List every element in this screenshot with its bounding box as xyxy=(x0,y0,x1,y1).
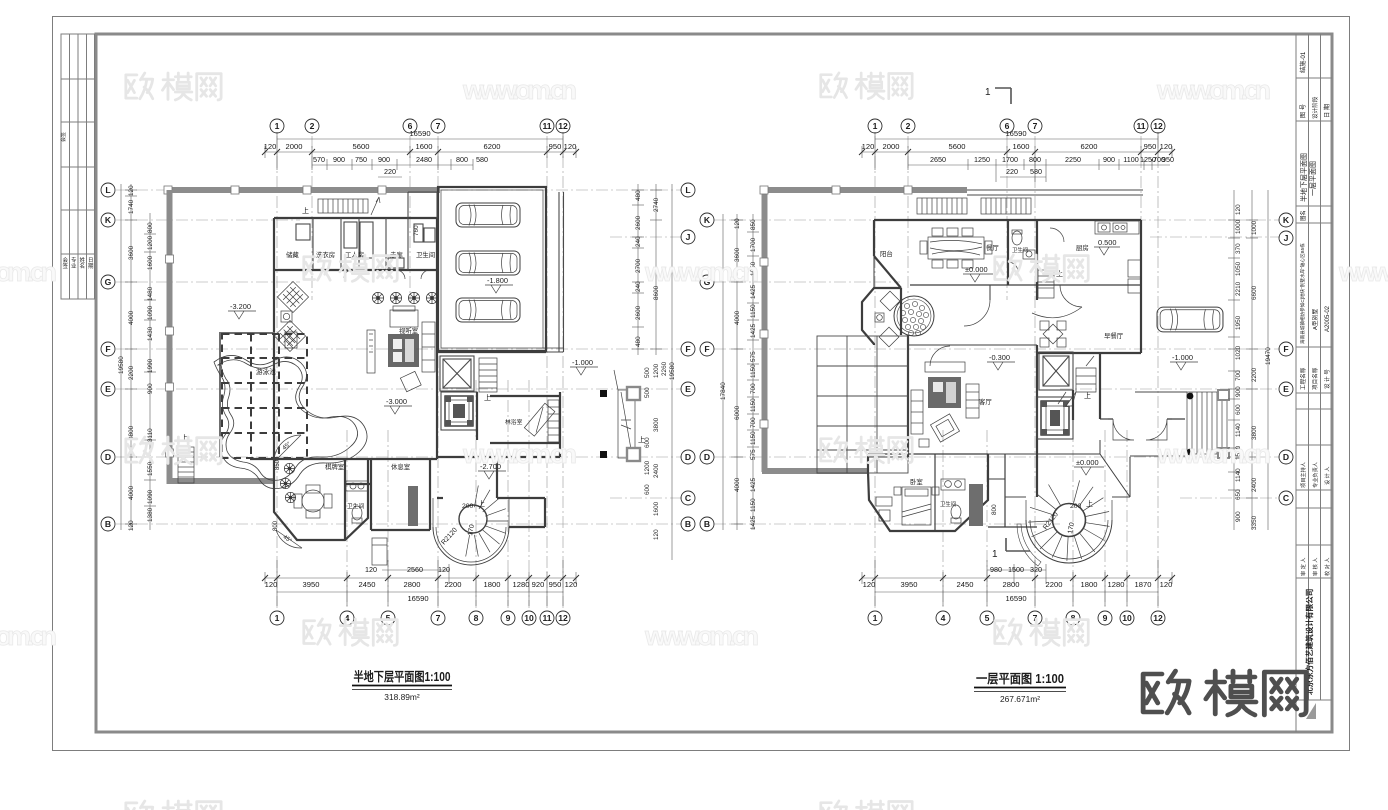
svg-text:700: 700 xyxy=(750,383,757,394)
svg-text:审 核 人: 审 核 人 xyxy=(1311,558,1319,576)
svg-text:16590: 16590 xyxy=(1005,594,1026,603)
svg-text:会: 会 xyxy=(63,256,69,264)
svg-text:12: 12 xyxy=(558,613,568,623)
svg-text:半地下层平面图: 半地下层平面图 xyxy=(1299,153,1308,202)
svg-text:审 定 人: 审 定 人 xyxy=(1299,558,1307,576)
svg-text:日 期: 日 期 xyxy=(1323,104,1331,118)
bottom bubbles xyxy=(868,611,1165,625)
svg-text:900: 900 xyxy=(147,383,154,394)
svg-text:4000: 4000 xyxy=(128,485,135,500)
svg-text:120: 120 xyxy=(128,520,135,531)
svg-text:姓: 姓 xyxy=(80,256,86,264)
svg-text:900: 900 xyxy=(1235,511,1242,522)
svg-text:200: 200 xyxy=(462,503,474,510)
spiral stair left plan xyxy=(433,486,509,566)
svg-text:10: 10 xyxy=(524,613,534,623)
svg-text:12: 12 xyxy=(1153,613,1163,623)
terrace deck edge walls xyxy=(219,333,275,457)
svg-text:1000: 1000 xyxy=(1251,220,1258,235)
svg-text:6: 6 xyxy=(408,121,413,131)
ornate water tank square xyxy=(441,392,477,430)
main body walls xyxy=(868,220,1141,531)
svg-text:1425: 1425 xyxy=(750,515,757,530)
entry doors xyxy=(1108,419,1172,440)
svg-text:1425: 1425 xyxy=(750,477,757,492)
svg-text:G: G xyxy=(704,277,711,287)
left dim columns xyxy=(121,184,156,530)
svg-text:J: J xyxy=(1284,233,1289,243)
level -2.700 xyxy=(478,462,506,479)
svg-text:1700: 1700 xyxy=(750,237,757,252)
svg-text:120: 120 xyxy=(653,529,660,540)
svg-text:F: F xyxy=(685,344,690,354)
placeholders xyxy=(116,136,682,608)
svg-text:600: 600 xyxy=(1235,404,1242,415)
row1 y88 phase A xyxy=(126,73,221,100)
porch coffer xyxy=(1037,397,1073,439)
svg-text:3800: 3800 xyxy=(1251,425,1258,440)
axes horizontal xyxy=(714,220,1280,524)
svg-text:L: L xyxy=(685,185,690,195)
octagonal bay west (round planter) xyxy=(862,288,901,345)
row5 y816 phase A (cut) xyxy=(126,801,221,810)
svg-text:图名: 图名 xyxy=(1299,210,1307,221)
top wall right part (porch) xyxy=(967,190,1143,195)
level -3.000 xyxy=(384,397,412,414)
svg-text:800: 800 xyxy=(991,504,998,515)
top dim lines xyxy=(265,132,576,177)
svg-text:F: F xyxy=(105,344,110,354)
svg-text:F: F xyxy=(704,344,709,354)
svg-text:2200: 2200 xyxy=(128,365,135,380)
svg-text:500: 500 xyxy=(644,367,651,378)
svg-text:3800: 3800 xyxy=(128,425,135,440)
svg-text:洗衣房: 洗衣房 xyxy=(316,250,335,259)
svg-text:2600: 2600 xyxy=(635,305,642,320)
svg-text:12: 12 xyxy=(1153,121,1163,131)
stair bottom-left xyxy=(178,447,194,483)
kitchen xyxy=(1050,221,1141,293)
axes vertical xyxy=(875,136,1158,608)
svg-text:6000: 6000 xyxy=(734,405,741,420)
breakfast table xyxy=(1040,321,1066,347)
svg-text:上: 上 xyxy=(1086,499,1093,508)
perimeter pergola walls xyxy=(762,187,967,193)
svg-text:4000: 4000 xyxy=(128,310,135,325)
top rooms block xyxy=(274,218,438,459)
svg-text:F: F xyxy=(1283,344,1288,354)
svg-text:240: 240 xyxy=(635,281,642,292)
canopy right double line xyxy=(546,192,564,352)
svg-text:6: 6 xyxy=(1005,121,1010,131)
top entry stairs xyxy=(917,198,1031,214)
svg-text:工程名称: 工程名称 xyxy=(1299,367,1307,390)
svg-text:日: 日 xyxy=(88,257,94,264)
svg-text:B: B xyxy=(105,519,111,529)
svg-text:1020: 1020 xyxy=(1235,345,1242,360)
top stairs xyxy=(318,197,380,215)
svg-text:储藏: 储藏 xyxy=(286,250,299,259)
svg-text:A2005-02: A2005-02 xyxy=(1325,305,1331,332)
svg-text:设计阶段: 设计阶段 xyxy=(1311,96,1319,119)
big logo xyxy=(1143,671,1306,715)
elevator xyxy=(440,356,474,391)
west retaining wall xyxy=(167,190,173,484)
stair beside elevator xyxy=(1058,356,1096,406)
svg-text:名: 名 xyxy=(80,262,86,270)
svg-text:阳台: 阳台 xyxy=(880,249,893,258)
svg-text:1090: 1090 xyxy=(147,305,154,320)
svg-text:校 对 人: 校 对 人 xyxy=(1323,558,1331,576)
svg-text:2600: 2600 xyxy=(635,215,642,230)
svg-text:业: 业 xyxy=(71,262,77,270)
svg-text:19580: 19580 xyxy=(118,356,125,374)
svg-text:会签: 会签 xyxy=(60,132,67,142)
svg-text:卫生间: 卫生间 xyxy=(1012,246,1028,254)
svg-text:E: E xyxy=(685,384,691,394)
svg-text:6600: 6600 xyxy=(1251,285,1258,300)
left bubbles right plan xyxy=(700,213,714,531)
svg-text:走廊: 走廊 xyxy=(390,250,403,259)
svg-text:5: 5 xyxy=(386,613,391,623)
svg-text:B: B xyxy=(685,519,691,529)
garage door opening ticks xyxy=(543,205,563,348)
svg-text:19470: 19470 xyxy=(1265,347,1272,365)
svg-text:2740: 2740 xyxy=(653,197,660,212)
svg-text:1990: 1990 xyxy=(147,358,154,373)
svg-text:1: 1 xyxy=(985,87,991,98)
svg-text:7: 7 xyxy=(436,121,441,131)
bottom dims xyxy=(265,560,576,606)
svg-text:一层平面图: 一层平面图 xyxy=(1309,161,1317,196)
svg-text:2200: 2200 xyxy=(1251,367,1258,382)
svg-text:17840: 17840 xyxy=(720,382,727,400)
svg-text:200: 200 xyxy=(1070,503,1082,510)
svg-text:10: 10 xyxy=(1122,613,1132,623)
svg-text:±0.000: ±0.000 xyxy=(1076,458,1099,467)
flowers row xyxy=(372,292,383,303)
svg-text:5: 5 xyxy=(985,613,990,623)
svg-text:上: 上 xyxy=(1056,269,1063,278)
svg-text:650: 650 xyxy=(1235,489,1242,500)
svg-text:1480: 1480 xyxy=(147,286,154,301)
svg-text:900: 900 xyxy=(1235,386,1242,397)
axes vertical xyxy=(277,136,563,608)
door arcs top rooms xyxy=(320,270,430,279)
svg-text:2400: 2400 xyxy=(653,463,660,478)
svg-text:8: 8 xyxy=(474,613,479,623)
svg-text:3800: 3800 xyxy=(653,417,660,432)
svg-text:C: C xyxy=(685,493,691,503)
svg-text:1150: 1150 xyxy=(750,304,757,318)
bottom bubbles xyxy=(270,611,570,625)
svg-text:7: 7 xyxy=(1033,121,1038,131)
svg-text:卫生间: 卫生间 xyxy=(347,502,365,510)
svg-text:1140: 1140 xyxy=(1235,468,1242,482)
svg-text:800: 800 xyxy=(273,520,279,531)
svg-text:G: G xyxy=(105,277,112,287)
svg-text:575: 575 xyxy=(750,351,757,362)
svg-text:1: 1 xyxy=(275,613,280,623)
svg-text:800: 800 xyxy=(147,222,154,233)
left dim columns right plan xyxy=(723,214,759,530)
svg-text:L: L xyxy=(105,185,110,195)
svg-text:318.89m²: 318.89m² xyxy=(384,692,420,702)
level -3.200 xyxy=(228,302,256,319)
svg-text:850: 850 xyxy=(750,219,757,230)
svg-text:267.671m²: 267.671m² xyxy=(1000,694,1040,704)
dining table xyxy=(920,228,992,268)
svg-text:19580: 19580 xyxy=(669,362,676,380)
top bubbles xyxy=(868,119,1165,133)
svg-text:上: 上 xyxy=(478,499,485,508)
svg-text:8600: 8600 xyxy=(653,285,660,300)
pool dashed grid xyxy=(222,334,307,458)
svg-text:11: 11 xyxy=(542,613,551,623)
stair next to elevator xyxy=(479,358,497,392)
right bubbles of left plan xyxy=(681,183,695,531)
svg-text:2700: 2700 xyxy=(635,258,642,273)
svg-text:1380: 1380 xyxy=(147,507,154,522)
corridor wall right of rooms / entry xyxy=(408,192,437,218)
svg-text:±0.000: ±0.000 xyxy=(965,265,988,274)
room labels xyxy=(880,243,1124,508)
svg-text:4000: 4000 xyxy=(734,310,741,325)
right dim columns of left plan xyxy=(632,184,672,560)
svg-text:3600: 3600 xyxy=(128,245,135,260)
top dim lines xyxy=(862,132,1172,182)
svg-text:850: 850 xyxy=(275,459,281,470)
svg-text:-1.000: -1.000 xyxy=(1172,353,1193,362)
svg-text:餐厅: 餐厅 xyxy=(986,243,999,252)
svg-text:575: 575 xyxy=(750,449,757,460)
left bubbles xyxy=(101,183,115,531)
svg-text:早餐厅: 早餐厅 xyxy=(1104,331,1124,340)
home theater furniture xyxy=(390,310,418,327)
level -1.000 mid xyxy=(570,358,598,375)
svg-text:设 计 号: 设 计 号 xyxy=(1323,369,1331,389)
svg-text:120: 120 xyxy=(734,218,741,229)
svg-text:120: 120 xyxy=(1235,204,1242,215)
svg-text:600: 600 xyxy=(644,484,651,495)
svg-text:厨房: 厨房 xyxy=(1076,243,1089,252)
svg-text:工人房: 工人房 xyxy=(345,250,364,259)
svg-text:签: 签 xyxy=(63,262,69,270)
svg-text:林浴室: 林浴室 xyxy=(505,418,523,426)
svg-text:1200: 1200 xyxy=(644,460,651,475)
level -1.800 xyxy=(485,276,513,293)
top bubbles xyxy=(270,119,570,133)
svg-text:K: K xyxy=(704,215,711,225)
axes horizontal xyxy=(116,190,682,524)
svg-text:一层平面图 1:100: 一层平面图 1:100 xyxy=(976,672,1064,686)
pergola top wall xyxy=(167,187,440,193)
svg-text:12: 12 xyxy=(558,121,568,131)
svg-text:A型别墅: A型别墅 xyxy=(1311,309,1319,330)
svg-text:上: 上 xyxy=(181,433,188,442)
spiral right plan xyxy=(1017,480,1112,566)
entry side walls xyxy=(1037,353,1185,497)
svg-text:700: 700 xyxy=(1235,370,1242,381)
svg-text:370: 370 xyxy=(1235,243,1242,254)
pool freeform xyxy=(214,355,367,488)
svg-text:B: B xyxy=(704,519,710,529)
svg-text:2: 2 xyxy=(310,121,315,131)
svg-text:1150: 1150 xyxy=(750,398,757,412)
svg-text:1425: 1425 xyxy=(750,284,757,299)
svg-text:3350: 3350 xyxy=(1251,515,1258,530)
svg-text:-1.800: -1.800 xyxy=(487,276,508,285)
svg-text:2210: 2210 xyxy=(1235,281,1242,296)
svg-text:E: E xyxy=(105,384,111,394)
svg-text:9: 9 xyxy=(506,613,511,623)
svg-text:500: 500 xyxy=(644,387,651,398)
svg-text:D: D xyxy=(1283,452,1289,462)
svg-text:棋牌室: 棋牌室 xyxy=(325,462,345,471)
elevator right plan xyxy=(1039,352,1073,390)
living room furniture xyxy=(925,362,965,372)
left sidebar table xyxy=(61,34,95,299)
walls to spiral xyxy=(1005,457,1130,497)
svg-text:-0.300: -0.300 xyxy=(989,353,1010,362)
svg-text:120: 120 xyxy=(128,185,135,196)
svg-text:600: 600 xyxy=(644,437,651,448)
hatched deck edge xyxy=(285,332,297,348)
svg-text:视听室: 视听室 xyxy=(399,326,419,335)
svg-text:1150: 1150 xyxy=(750,431,757,445)
svg-text:D: D xyxy=(704,452,710,462)
svg-text:1200: 1200 xyxy=(653,363,660,378)
svg-text:-3.200: -3.200 xyxy=(230,302,251,311)
right wing (sauna) xyxy=(437,352,560,527)
svg-text:休息室: 休息室 xyxy=(391,462,411,471)
svg-text:2400: 2400 xyxy=(1251,477,1258,492)
svg-text:1090: 1090 xyxy=(147,489,154,504)
svg-text:4: 4 xyxy=(941,613,946,623)
svg-text:J: J xyxy=(686,232,691,242)
svg-text:1200: 1200 xyxy=(147,235,154,250)
svg-text:项目名称: 项目名称 xyxy=(1311,367,1319,390)
right dim columns right plan xyxy=(1228,190,1268,530)
svg-text:1550: 1550 xyxy=(147,461,154,476)
svg-text:240: 240 xyxy=(635,236,642,247)
svg-text:1600: 1600 xyxy=(147,255,154,270)
bottom dims xyxy=(862,560,1172,606)
svg-text:K: K xyxy=(105,215,112,225)
svg-text:8: 8 xyxy=(1071,613,1076,623)
svg-text:1740: 1740 xyxy=(128,199,135,214)
svg-text:K: K xyxy=(1283,215,1290,225)
svg-text:220: 220 xyxy=(384,167,396,176)
kitchen door arc to hall xyxy=(1060,285,1082,307)
svg-text:设 计 人: 设 计 人 xyxy=(1323,467,1331,485)
room labels xyxy=(286,250,435,471)
svg-text:1050: 1050 xyxy=(750,261,757,276)
small tables upper-left of living xyxy=(277,281,308,312)
svg-text:1150: 1150 xyxy=(750,364,757,378)
svg-text:0.500: 0.500 xyxy=(1098,238,1117,247)
svg-text:760: 760 xyxy=(413,225,420,236)
svg-text:1600: 1600 xyxy=(653,501,660,516)
svg-text:1: 1 xyxy=(992,549,998,560)
entry exterior stair xyxy=(1187,390,1229,458)
svg-text:4: 4 xyxy=(345,613,350,623)
svg-text:项目主持人: 项目主持人 xyxy=(1299,462,1307,488)
svg-text:3600: 3600 xyxy=(734,247,741,262)
svg-text:11: 11 xyxy=(542,121,551,131)
svg-text:1000: 1000 xyxy=(1235,219,1242,234)
svg-text:1: 1 xyxy=(873,613,878,623)
bath fixtures xyxy=(346,481,368,491)
svg-text:9: 9 xyxy=(1103,613,1108,623)
middle south rooms walls xyxy=(250,459,437,540)
svg-text:2260: 2260 xyxy=(661,361,668,376)
svg-text:期: 期 xyxy=(88,263,94,270)
svg-text:C: C xyxy=(1283,493,1289,503)
svg-text:1950: 1950 xyxy=(1235,315,1242,330)
level marks xyxy=(963,265,993,282)
svg-text:480: 480 xyxy=(635,336,642,347)
svg-text:16590: 16590 xyxy=(407,594,428,603)
svg-text:专: 专 xyxy=(71,256,77,264)
svg-text:700: 700 xyxy=(750,417,757,428)
wardrobe dark in rest room xyxy=(408,486,418,526)
section marks xyxy=(995,88,1030,551)
svg-text:结施-01: 结施-01 xyxy=(1299,51,1307,73)
car right plan xyxy=(1157,307,1223,332)
svg-text:1140: 1140 xyxy=(1235,423,1242,437)
svg-text:图 号: 图 号 xyxy=(1300,104,1307,118)
svg-text:专业负责人: 专业负责人 xyxy=(1311,462,1319,488)
svg-text:7: 7 xyxy=(436,613,441,623)
svg-text:11: 11 xyxy=(1136,121,1145,131)
terrace tiles xyxy=(817,336,908,473)
bedroom furniture xyxy=(876,487,939,525)
svg-text:16590: 16590 xyxy=(409,129,430,138)
svg-text:E: E xyxy=(1283,384,1289,394)
row3 y452 phase A xyxy=(126,437,221,464)
svg-text:1050: 1050 xyxy=(1235,261,1242,276)
svg-text:D: D xyxy=(105,452,111,462)
svg-text:3110: 3110 xyxy=(147,428,154,442)
bath top xyxy=(1008,230,1035,272)
small stair in kitchen area xyxy=(1038,270,1054,298)
svg-text:9801500320: 9801500320 xyxy=(990,565,1042,574)
svg-text:1: 1 xyxy=(873,121,878,131)
svg-text:上: 上 xyxy=(1084,391,1091,400)
svg-text:半地下层平面图1:100: 半地下层平面图1:100 xyxy=(354,669,451,684)
driveway posts + ramp xyxy=(600,390,607,397)
bath bottom fixtures xyxy=(941,479,965,490)
svg-text:卫生间: 卫生间 xyxy=(940,500,956,508)
svg-text:7: 7 xyxy=(1033,613,1038,623)
svg-text:1150: 1150 xyxy=(750,498,757,512)
octagon furniture xyxy=(294,485,332,518)
svg-text:2: 2 xyxy=(906,121,911,131)
garage xyxy=(438,187,546,351)
svg-text:4000: 4000 xyxy=(734,477,741,492)
svg-text:-1.000: -1.000 xyxy=(572,358,593,367)
hall walls / door arcs xyxy=(964,300,990,326)
svg-text:上: 上 xyxy=(484,393,491,402)
svg-text:1430: 1430 xyxy=(147,326,154,341)
svg-text:1425: 1425 xyxy=(750,323,757,338)
svg-text:卫生间: 卫生间 xyxy=(416,250,435,259)
right bubbles right plan xyxy=(1279,213,1293,505)
svg-text:1520: 1520 xyxy=(1235,445,1242,460)
svg-text:海南县城镇相仿参如C]地块"别墅水岸"轴心区B5栋: 海南县城镇相仿参如C]地块"别墅水岸"轴心区B5栋 xyxy=(1299,243,1306,344)
svg-text:卧室: 卧室 xyxy=(910,477,923,486)
